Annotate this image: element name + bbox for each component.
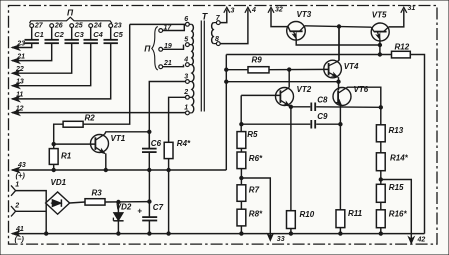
- svg-text:R8*: R8*: [249, 210, 263, 219]
- resistor R5: [237, 132, 246, 149]
- svg-text:R1: R1: [61, 152, 72, 161]
- svg-text:C8: C8: [317, 96, 328, 105]
- svg-text:2: 2: [183, 89, 188, 96]
- svg-text:(−): (−): [15, 235, 25, 244]
- svg-text:26: 26: [54, 22, 63, 29]
- node VD2 top: [117, 200, 120, 203]
- svg-text:R10: R10: [300, 210, 315, 219]
- selector contact 17: [159, 29, 163, 33]
- resistor R7: [237, 185, 246, 202]
- transistor VT4: [324, 60, 342, 78]
- node VT3 emitter joins VT5 emitter: [378, 43, 381, 46]
- svg-text:2: 2: [14, 203, 19, 210]
- wire tap 2 down to R4*: [169, 97, 186, 142]
- svg-text:1: 1: [184, 105, 188, 112]
- svg-text:R15: R15: [389, 183, 404, 192]
- node C9 right on VT6 emitter: [339, 123, 342, 126]
- primary tap 4: [186, 63, 190, 67]
- capacitor C8: [291, 106, 310, 108]
- wire bus to VT4 emitter node: [226, 81, 338, 83]
- wire VT5 collector to terminal 31: [389, 10, 404, 27]
- selector contact 19: [159, 47, 163, 51]
- svg-text:VT1: VT1: [111, 134, 126, 143]
- terminal 1 chevron: [11, 185, 16, 195]
- transformer core: [200, 21, 202, 112]
- svg-text:6: 6: [184, 16, 188, 23]
- zener diode VD2: [117, 202, 119, 212]
- bracket П over C1-C5: [30, 17, 112, 23]
- node C6 bottom on plus bus: [148, 168, 151, 171]
- svg-text:3: 3: [184, 73, 188, 80]
- node VT1 emitter on plus bus: [104, 168, 107, 171]
- transformer secondary winding: [212, 23, 214, 44]
- node VD1 vertical on minus bus: [45, 232, 48, 235]
- primary tap 2: [186, 95, 190, 99]
- switch П brace: [152, 27, 158, 71]
- svg-text:VT6: VT6: [354, 85, 369, 94]
- capacitor C6: [148, 132, 150, 148]
- svg-text:32: 32: [275, 7, 283, 14]
- capacitor C7 polarized: [148, 170, 150, 217]
- capacitor C3 with terminal 25 and output arrow 22: [70, 24, 74, 28]
- wire VT2 base down to R5: [240, 95, 242, 131]
- transistor VT1: [91, 135, 109, 153]
- svg-text:3: 3: [231, 8, 235, 15]
- terminal 43 (+) wire: [12, 169, 54, 171]
- svg-text:R5: R5: [247, 130, 258, 139]
- svg-text:1: 1: [15, 182, 19, 189]
- node C8 right on R13 wire: [379, 106, 382, 109]
- resistor R12: [392, 51, 411, 58]
- secondary tap 7: [216, 21, 220, 25]
- resistor R6*: [240, 148, 242, 152]
- svg-text:41: 41: [15, 226, 24, 233]
- svg-text:21: 21: [16, 53, 25, 60]
- node C9 left on R5 chain: [240, 123, 243, 126]
- node R16 bottom on minus bus: [380, 228, 382, 234]
- svg-text:24: 24: [93, 22, 102, 29]
- secondary tap 8: [216, 42, 220, 46]
- resistor R15: [376, 184, 385, 202]
- svg-text:C4: C4: [93, 30, 103, 39]
- capacitor C1 with terminal 27 and output arrow 23: [30, 24, 34, 28]
- wire tap 8 to terminal 4: [220, 10, 248, 44]
- node bus-VT4emitter left: [225, 80, 228, 83]
- node VT3/VT5 collector junction: [337, 25, 340, 28]
- node R8 bottom on minus bus: [240, 226, 242, 234]
- node C8 left on VT2 emitter: [289, 105, 292, 108]
- svg-text:C2: C2: [54, 30, 64, 39]
- svg-text:VT3: VT3: [297, 10, 312, 19]
- wire terminal 12 to transformer tap 1: [12, 112, 186, 114]
- svg-text:(+): (+): [16, 171, 26, 180]
- svg-text:R11: R11: [348, 209, 363, 218]
- svg-text:22: 22: [15, 66, 24, 73]
- wire tap 3 down to C6/VT1 collector node: [149, 82, 185, 149]
- svg-text:VT5: VT5: [372, 11, 387, 20]
- node VT4 emitter junction: [337, 80, 340, 83]
- capacitor C5 with terminal 23 and output arrow 11: [109, 24, 113, 28]
- resistor R1: [53, 144, 55, 149]
- svg-text:23: 23: [16, 40, 25, 47]
- svg-text:25: 25: [74, 22, 83, 29]
- svg-text:R13: R13: [389, 126, 404, 135]
- svg-text:23: 23: [113, 22, 122, 29]
- resistor R9: [226, 69, 248, 71]
- svg-text:R16*: R16*: [389, 210, 408, 219]
- primary tap 3: [186, 80, 190, 84]
- svg-text:C7: C7: [153, 203, 164, 212]
- transistor VT6: [333, 88, 351, 106]
- resistor R10: [287, 211, 296, 229]
- node R4 crossing plus bus: [167, 168, 170, 171]
- svg-text:42: 42: [417, 237, 426, 244]
- transistor VT3: [287, 22, 306, 41]
- svg-text:11: 11: [16, 92, 23, 99]
- node R14/R15 junction: [380, 171, 382, 185]
- node R9/VT2 collector: [288, 68, 291, 71]
- resistor R8*: [240, 201, 242, 209]
- capacitor C2 with terminal 26 and output arrow 21: [50, 24, 54, 28]
- wire tap 7 to terminal 3: [220, 10, 227, 23]
- capacitor C9: [241, 123, 310, 125]
- svg-text:C5: C5: [113, 30, 123, 39]
- terminal 32 wire: [268, 7, 274, 13]
- transistor VT2: [276, 88, 294, 106]
- wire junction to terminal 42: [381, 180, 412, 243]
- primary tap 1: [186, 111, 190, 115]
- svg-text:C3: C3: [74, 30, 84, 39]
- svg-text:8: 8: [215, 36, 219, 43]
- svg-text:R6*: R6*: [249, 154, 263, 163]
- resistor R2: [54, 124, 63, 144]
- primary tap 6: [186, 22, 190, 26]
- svg-text:31: 31: [408, 5, 416, 12]
- node R4 bottom on minus bus: [167, 232, 170, 235]
- plus bus wire: [54, 169, 227, 171]
- wire junction to terminal 33: [241, 178, 270, 240]
- primary tap 5: [186, 43, 190, 47]
- emitter rail to R12: [226, 54, 391, 56]
- svg-text:VD1: VD1: [51, 178, 67, 187]
- svg-text:R2: R2: [85, 114, 96, 123]
- wire VT3 collector to VT5 base: [305, 26, 372, 27]
- wire junction down to VT4 collector: [338, 27, 340, 61]
- svg-text:4: 4: [251, 7, 256, 14]
- svg-text:C1: C1: [34, 30, 44, 39]
- resistor R4*: [164, 142, 173, 158]
- terminal 2 chevron: [11, 206, 16, 216]
- svg-text:R9: R9: [252, 55, 263, 64]
- capacitor C4 with terminal 24 and output arrow 13: [89, 24, 93, 28]
- svg-text:5: 5: [184, 36, 188, 43]
- svg-text:VT2: VT2: [297, 85, 312, 94]
- node R9 left on bus: [225, 68, 228, 71]
- svg-text:VT4: VT4: [344, 62, 359, 71]
- bridge rectifier VD1: [46, 192, 70, 214]
- wire terminal 1 to bridge: [16, 191, 47, 234]
- node VT5 emitter on rail: [378, 53, 381, 56]
- node R1 bottom on plus bus: [52, 168, 55, 171]
- svg-text:C9: C9: [317, 112, 328, 121]
- svg-text:12: 12: [16, 105, 24, 112]
- svg-text:R14*: R14*: [390, 154, 409, 163]
- node VD2 bottom on minus bus: [117, 232, 120, 235]
- svg-text:13: 13: [16, 79, 24, 86]
- svg-text:C6: C6: [151, 139, 162, 148]
- node tap3/VT1 collector junction: [148, 130, 151, 133]
- transformer T primary winding: [192, 24, 194, 44]
- node R6/R7 junction: [240, 169, 242, 185]
- svg-text:R3: R3: [92, 188, 103, 197]
- svg-text:R12: R12: [395, 43, 410, 52]
- svg-text:R4*: R4*: [177, 139, 191, 148]
- node R1 top / VT1 base: [52, 142, 55, 145]
- svg-text:27: 27: [34, 22, 44, 29]
- resistor R14*: [380, 142, 382, 153]
- resistor R3: [70, 202, 85, 203]
- svg-text:П: П: [67, 8, 74, 18]
- resistor R13: [376, 125, 385, 142]
- svg-text:43: 43: [17, 162, 26, 169]
- node C7 top on R3 line: [148, 200, 151, 203]
- svg-text:4: 4: [183, 56, 188, 63]
- node C7 bottom on minus bus: [148, 232, 151, 235]
- svg-text:+: +: [137, 206, 142, 215]
- terminal 41 (-) wire: [12, 233, 425, 235]
- svg-text:R7: R7: [249, 186, 260, 195]
- svg-text:33: 33: [277, 236, 285, 243]
- wire terminal 2: [16, 210, 47, 212]
- node R11 bottom: [339, 232, 342, 235]
- output bus vertical: [225, 55, 227, 171]
- node R10 bottom: [289, 232, 292, 235]
- selector contact 21: [159, 65, 163, 69]
- transistor VT5: [371, 23, 389, 41]
- wire tap 6 to R2: [130, 23, 186, 25]
- resistor R11: [336, 210, 345, 228]
- resistor R16*: [380, 202, 382, 210]
- svg-text:П: П: [144, 44, 151, 54]
